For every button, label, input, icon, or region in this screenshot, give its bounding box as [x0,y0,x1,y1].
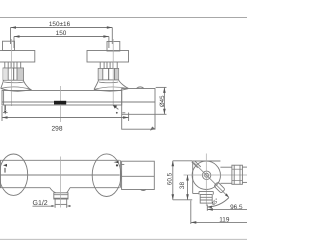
dark logo dash [54,101,66,105]
wall hatch [192,161,201,168]
38 dimension [187,175,189,200]
right knob ellipse [92,154,121,197]
45 degree arc dimension [207,198,229,208]
small marks front left [3,164,7,167]
svg-text:60.5: 60.5 [166,172,173,185]
right eccentric square [107,42,120,52]
left union neck lines [5,62,21,68]
Ø45 dimension [156,86,167,88]
svg-text:119: 119 [219,216,230,223]
60.5 dimension [173,160,192,162]
top border line [0,17,247,19]
small end dimension right [115,106,119,109]
wall plate square [193,161,221,194]
front body [0,159,120,161]
valve circle [192,161,220,189]
outlet under centre [50,188,56,193]
connector to the right [220,166,232,168]
outlet width arrows [51,205,55,207]
small end dimension left [4,105,6,110]
svg-text:150±16: 150±16 [49,21,71,28]
right wall flange rect [87,51,129,63]
right union neck lines [100,62,117,69]
dimension 150±16 line [11,27,113,29]
bottom border line [0,238,247,240]
bar body (plan) [2,91,122,106]
45 degree diagonal [194,162,229,197]
outlet below circle [199,192,213,195]
angled check valve port [214,182,225,193]
left union nut [3,68,23,80]
svg-text:150: 150 [56,30,67,37]
right union nut [98,69,118,80]
svg-text:96.5: 96.5 [230,204,243,211]
small marks front right [114,161,119,163]
119 dimension [190,201,192,225]
left eccentric square [3,41,15,50]
left transition flare [1,80,4,88]
left wall flange rect [0,51,35,63]
left knob ellipse [0,154,28,195]
96.5 dimension [206,205,208,211]
axes [184,174,248,176]
centre mark of bar [60,86,62,122]
svg-text:38: 38 [179,182,186,190]
svg-text:298: 298 [51,126,62,133]
298 dimension [1,106,3,121]
right transition flare [94,80,99,90]
centre axes of unions [11,39,13,106]
dimension 150 line [14,36,109,38]
svg-text:Ø45: Ø45 [159,95,166,107]
